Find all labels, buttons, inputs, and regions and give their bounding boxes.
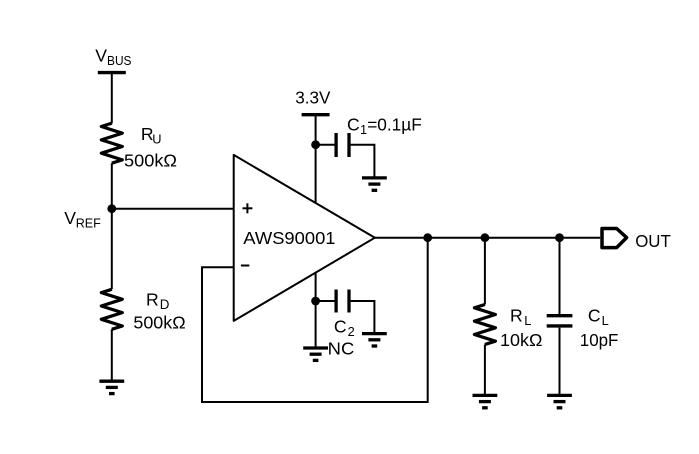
- wire 3.3V bar to op-amp supply pin: [315, 115, 317, 204]
- feedback wire from inverting input to output node: [202, 238, 428, 402]
- junction dot supply/C1 node: [311, 140, 320, 149]
- capacitor C_L: [547, 316, 573, 326]
- svg-text:C: C: [588, 305, 601, 325]
- label R_L: [510, 305, 531, 328]
- wire R_D to ground: [111, 329, 113, 381]
- wire C_L bottom plate to ground: [559, 328, 561, 396]
- ground (C1): [362, 178, 387, 190]
- svg-text:AWS90001: AWS90001: [243, 228, 335, 248]
- wire C1 right plate to ground: [351, 145, 375, 178]
- svg-text:C: C: [347, 114, 360, 134]
- svg-text:V: V: [64, 208, 76, 228]
- svg-text:OUT: OUT: [635, 231, 671, 251]
- label R_U: [141, 124, 162, 147]
- wire V_BUS bar to R_U: [111, 73, 113, 124]
- junction dot C2 node: [311, 297, 320, 306]
- svg-text:NC: NC: [328, 338, 355, 358]
- node V_REF junction dot: [107, 204, 116, 213]
- ground (C2): [362, 334, 387, 346]
- op-amp + input symbol: [243, 203, 253, 213]
- svg-text:L: L: [602, 313, 609, 328]
- op-amp - input symbol: [241, 265, 249, 267]
- junction dot feedback/output: [423, 233, 432, 242]
- output wire op-amp to OUT terminal: [375, 237, 600, 239]
- wire V_REF to op-amp noninverting input: [112, 208, 234, 210]
- resistor R_L: [474, 305, 495, 345]
- wire output node to R_L: [484, 238, 486, 305]
- svg-text:D: D: [160, 297, 170, 312]
- op-amp U1 triangle: [234, 155, 375, 321]
- resistor R_D: [101, 289, 122, 329]
- svg-text:3.3V: 3.3V: [295, 88, 330, 108]
- label C_L: [588, 305, 609, 328]
- svg-text:10pF: 10pF: [580, 330, 619, 350]
- label C1=0.1uF: [347, 114, 422, 137]
- junction dot C_L node: [555, 233, 564, 242]
- svg-text:BUS: BUS: [107, 53, 132, 68]
- power rail bar V_BUS: [98, 71, 126, 74]
- wire C2 right plate to ground: [351, 301, 375, 334]
- wire output node to C_L top plate: [559, 238, 561, 314]
- svg-text:10kΩ: 10kΩ: [500, 330, 542, 350]
- svg-text:=0.1µF: =0.1µF: [367, 114, 422, 134]
- junction dot R_L node: [481, 233, 490, 242]
- svg-text:500kΩ: 500kΩ: [124, 151, 177, 171]
- ground (C_L): [547, 395, 572, 407]
- svg-text:2: 2: [348, 324, 355, 339]
- ground (R_L): [473, 395, 498, 407]
- svg-text:V: V: [95, 46, 107, 66]
- wire junction to C1 left plate: [316, 144, 335, 146]
- capacitor C1: [336, 133, 349, 157]
- svg-text:U: U: [152, 131, 161, 146]
- label R_D: [146, 290, 170, 313]
- svg-text:L: L: [524, 313, 531, 328]
- svg-text:REF: REF: [76, 216, 101, 231]
- svg-text:C: C: [334, 316, 347, 336]
- wire op-amp bottom pin to ground: [315, 272, 317, 348]
- svg-text:R: R: [510, 305, 523, 325]
- capacitor C2: [336, 290, 349, 313]
- ground (R_D): [99, 381, 124, 393]
- ground (op-amp bottom pin): [303, 348, 328, 360]
- svg-text:R: R: [146, 290, 159, 310]
- net label V_REF: [64, 208, 101, 231]
- terminal OUT: [602, 229, 627, 248]
- wire R_L to ground: [484, 345, 486, 396]
- svg-text:1: 1: [360, 122, 367, 137]
- wire R_U to R_D through node V_REF: [111, 163, 113, 289]
- wire junction to C2 left plate: [316, 300, 335, 302]
- net label V_BUS: [95, 46, 131, 68]
- label C2: [334, 316, 355, 339]
- power rail bar 3.3V: [302, 113, 330, 116]
- svg-text:500kΩ: 500kΩ: [133, 312, 185, 332]
- resistor R_U: [101, 123, 122, 163]
